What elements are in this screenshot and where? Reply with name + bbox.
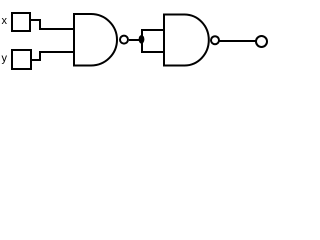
wire from Y box to NAND gate U1 lower input xyxy=(32,52,73,60)
wire from U1 bubble to junction xyxy=(129,39,142,41)
wire from splitter to NAND gate U2 upper input xyxy=(141,29,164,31)
input switch X (box) xyxy=(12,13,30,31)
svg-text:x: x xyxy=(2,15,8,27)
output LED circle xyxy=(256,36,267,47)
wire from X box to NAND gate U1 upper input xyxy=(31,20,73,29)
NAND gate U1 output bubble xyxy=(120,36,128,44)
NAND gate U1 body xyxy=(74,14,117,66)
junction dot xyxy=(139,35,145,44)
input switch Y (box) xyxy=(12,50,31,69)
wire from splitter to NAND gate U2 lower input xyxy=(141,51,164,53)
NAND gate U2 output bubble xyxy=(211,36,219,44)
svg-text:y: y xyxy=(2,53,8,65)
splitter vertical wire xyxy=(141,30,143,52)
wire from U2 bubble to output LED xyxy=(219,40,256,42)
NAND gate U2 body xyxy=(164,15,209,66)
